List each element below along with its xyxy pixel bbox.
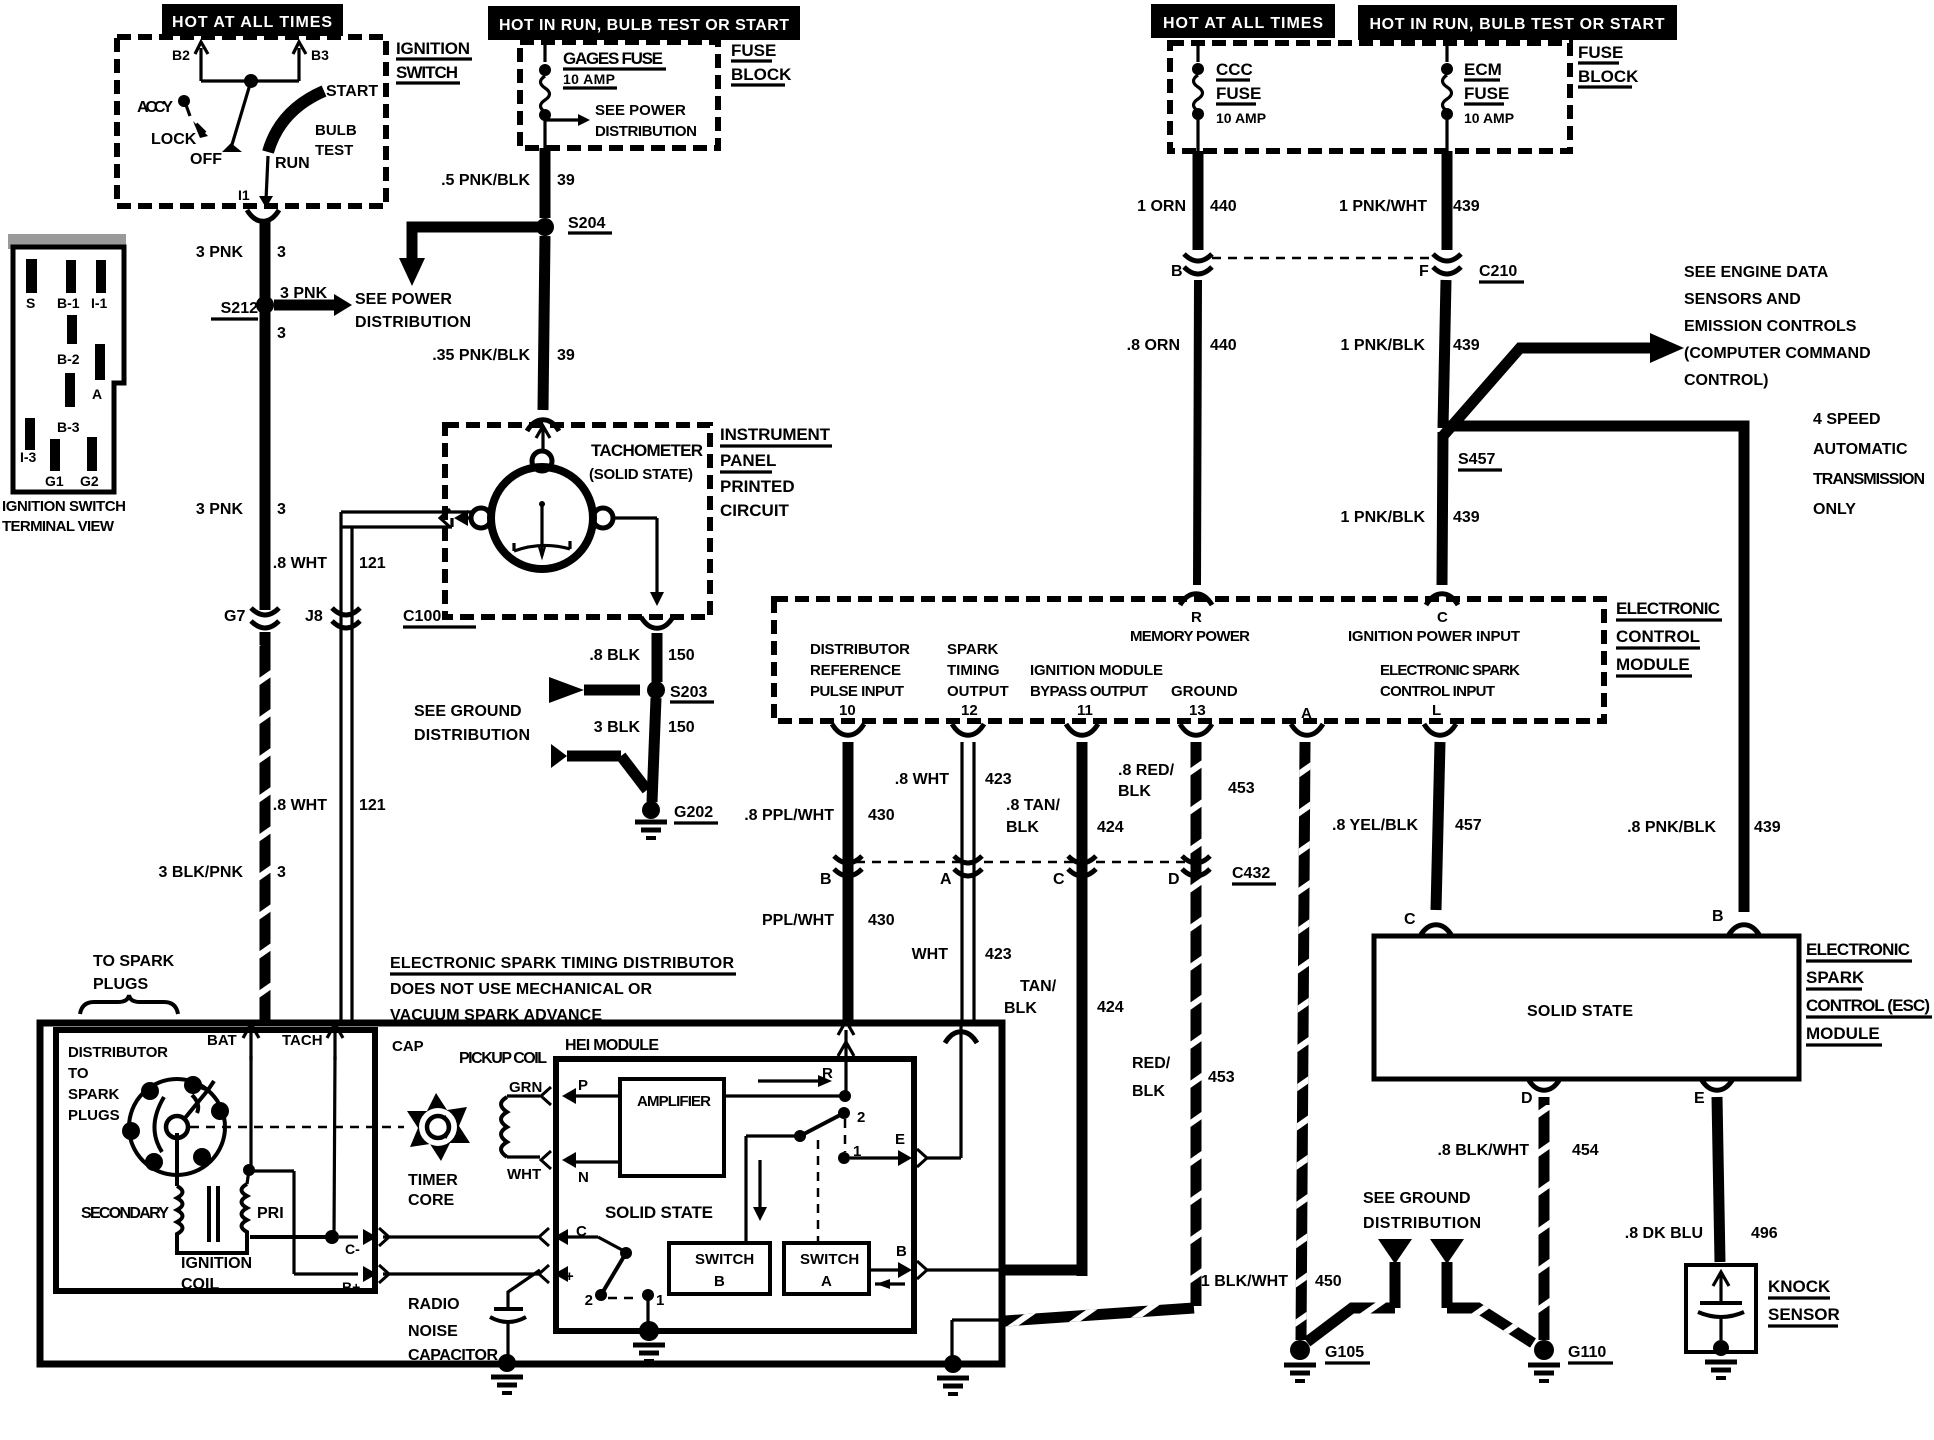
svg-text:BLK: BLK — [1004, 1000, 1037, 1017]
svg-text:DISTRIBUTOR: DISTRIBUTOR — [810, 641, 910, 658]
svg-text:C-: C- — [345, 1241, 360, 1257]
svg-text:BLOCK: BLOCK — [731, 65, 792, 84]
svg-text:3: 3 — [277, 325, 286, 342]
svg-text:A: A — [940, 871, 952, 888]
svg-text:.8 PPL/WHT: .8 PPL/WHT — [744, 807, 834, 824]
svg-text:.8 BLK/WHT: .8 BLK/WHT — [1437, 1142, 1529, 1159]
svg-text:VACUUM SPARK ADVANCE: VACUUM SPARK ADVANCE — [390, 1007, 602, 1024]
svg-text:B3: B3 — [311, 47, 329, 63]
svg-text:MEMORY POWER: MEMORY POWER — [1130, 628, 1250, 645]
svg-text:1 ORN: 1 ORN — [1137, 198, 1186, 215]
svg-text:HOT AT ALL TIMES: HOT AT ALL TIMES — [1163, 15, 1323, 32]
svg-text:WHT: WHT — [912, 946, 949, 963]
svg-text:TEST: TEST — [315, 142, 353, 159]
svg-text:.8 BLK: .8 BLK — [589, 647, 640, 664]
svg-text:COIL: COIL — [181, 1276, 219, 1293]
svg-text:PANEL: PANEL — [720, 451, 776, 470]
svg-text:TO SPARK: TO SPARK — [93, 953, 175, 970]
svg-text:DISTRIBUTION: DISTRIBUTION — [1363, 1215, 1481, 1232]
svg-text:SWITCH: SWITCH — [396, 63, 458, 82]
svg-text:424: 424 — [1097, 999, 1124, 1016]
svg-text:BYPASS OUTPUT: BYPASS OUTPUT — [1030, 683, 1148, 700]
svg-text:S212: S212 — [221, 300, 258, 317]
svg-text:DOES NOT USE MECHANICAL OR: DOES NOT USE MECHANICAL OR — [390, 981, 652, 998]
svg-text:C: C — [1404, 911, 1416, 928]
svg-text:FUSE: FUSE — [1216, 84, 1261, 103]
svg-text:3 PNK: 3 PNK — [280, 285, 328, 302]
svg-text:B-1: B-1 — [57, 295, 80, 311]
svg-text:G105: G105 — [1325, 1344, 1364, 1361]
svg-text:10 AMP: 10 AMP — [1216, 110, 1266, 126]
svg-text:BAT: BAT — [207, 1032, 237, 1049]
svg-text:PPL/WHT: PPL/WHT — [762, 912, 834, 929]
svg-text:ELECTRONIC SPARK: ELECTRONIC SPARK — [1380, 662, 1520, 679]
svg-text:B: B — [1712, 908, 1724, 925]
svg-text:I-3: I-3 — [20, 449, 37, 465]
svg-text:IGNITION: IGNITION — [396, 39, 470, 58]
svg-text:1 BLK/WHT: 1 BLK/WHT — [1201, 1273, 1288, 1290]
svg-text:ELECTRONIC SPARK TIMING DISTRI: ELECTRONIC SPARK TIMING DISTRIBUTOR — [390, 955, 734, 972]
svg-text:HOT IN RUN, BULB TEST OR START: HOT IN RUN, BULB TEST OR START — [499, 17, 789, 34]
svg-text:A: A — [1301, 705, 1312, 722]
svg-text:CONTROL): CONTROL) — [1684, 372, 1768, 389]
svg-text:A: A — [821, 1273, 832, 1290]
svg-text:TO: TO — [68, 1065, 89, 1082]
svg-text:439: 439 — [1754, 819, 1781, 836]
svg-text:430: 430 — [868, 912, 895, 929]
svg-text:C: C — [1053, 871, 1065, 888]
svg-text:I1: I1 — [238, 187, 250, 203]
svg-text:1 PNK/BLK: 1 PNK/BLK — [1341, 509, 1426, 526]
svg-text:HOT AT ALL TIMES: HOT AT ALL TIMES — [172, 14, 332, 31]
svg-text:1: 1 — [656, 1292, 664, 1309]
svg-text:TAN/: TAN/ — [1020, 978, 1057, 995]
svg-text:S457: S457 — [1458, 451, 1495, 468]
svg-text:1 PNK/BLK: 1 PNK/BLK — [1341, 337, 1426, 354]
svg-text:F: F — [1419, 263, 1429, 280]
svg-text:.8 WHT: .8 WHT — [273, 797, 327, 814]
svg-text:PLUGS: PLUGS — [68, 1107, 120, 1124]
svg-text:C: C — [1437, 609, 1448, 626]
svg-text:457: 457 — [1455, 817, 1482, 834]
svg-text:496: 496 — [1751, 1225, 1778, 1242]
svg-text:ELECTRONIC: ELECTRONIC — [1616, 599, 1720, 618]
svg-text:439: 439 — [1453, 509, 1480, 526]
svg-text:439: 439 — [1453, 198, 1480, 215]
svg-text:121: 121 — [359, 555, 386, 572]
svg-text:C210: C210 — [1479, 263, 1517, 280]
svg-text:440: 440 — [1210, 337, 1237, 354]
svg-text:DISTRIBUTION: DISTRIBUTION — [595, 123, 697, 140]
svg-text:B-2: B-2 — [57, 351, 80, 367]
svg-text:LOCK: LOCK — [151, 131, 197, 148]
svg-text:12: 12 — [961, 702, 978, 719]
svg-text:TIMER: TIMER — [408, 1172, 458, 1189]
svg-text:CONTROL: CONTROL — [1616, 627, 1700, 646]
svg-text:.5 PNK/BLK: .5 PNK/BLK — [441, 172, 530, 189]
svg-text:39: 39 — [557, 347, 575, 364]
svg-text:SECONDARY: SECONDARY — [81, 1205, 169, 1222]
svg-text:3 PNK: 3 PNK — [196, 244, 244, 261]
svg-text:SENSOR: SENSOR — [1768, 1305, 1840, 1324]
svg-text:CIRCUIT: CIRCUIT — [720, 501, 790, 520]
svg-text:CONTROL INPUT: CONTROL INPUT — [1380, 683, 1495, 700]
svg-text:DISTRIBUTION: DISTRIBUTION — [414, 727, 530, 744]
svg-text:SPARK: SPARK — [947, 641, 999, 658]
svg-text:SPARK: SPARK — [1806, 968, 1865, 987]
svg-text:L: L — [1432, 702, 1441, 719]
svg-text:11: 11 — [1077, 702, 1093, 719]
svg-text:REFERENCE: REFERENCE — [810, 662, 901, 679]
svg-text:DISTRIBUTOR: DISTRIBUTOR — [68, 1044, 168, 1061]
svg-text:S204: S204 — [568, 215, 605, 232]
svg-text:.8 TAN/: .8 TAN/ — [1006, 797, 1060, 814]
svg-text:2: 2 — [585, 1292, 593, 1309]
svg-text:3: 3 — [277, 244, 286, 261]
svg-text:HEI MODULE: HEI MODULE — [565, 1037, 659, 1054]
svg-text:OFF: OFF — [190, 151, 222, 168]
svg-text:TIMING: TIMING — [947, 662, 1000, 679]
svg-text:.8 DK BLU: .8 DK BLU — [1625, 1225, 1703, 1242]
svg-text:.8 YEL/BLK: .8 YEL/BLK — [1332, 817, 1418, 834]
svg-text:G2: G2 — [80, 473, 99, 489]
svg-text:.8 ORN: .8 ORN — [1127, 337, 1180, 354]
svg-text:MODULE: MODULE — [1806, 1024, 1880, 1043]
svg-text:RADIO: RADIO — [408, 1296, 460, 1313]
svg-text:.8 RED/: .8 RED/ — [1118, 762, 1175, 779]
svg-text:440: 440 — [1210, 198, 1237, 215]
svg-text:B+: B+ — [342, 1279, 360, 1295]
svg-text:430: 430 — [868, 807, 895, 824]
svg-text:PLUGS: PLUGS — [93, 976, 148, 993]
svg-text:3: 3 — [277, 864, 286, 881]
svg-text:453: 453 — [1228, 780, 1255, 797]
svg-text:ONLY: ONLY — [1813, 501, 1856, 518]
svg-text:G202: G202 — [674, 804, 713, 821]
svg-text:START: START — [326, 83, 378, 100]
svg-text:SEE GROUND: SEE GROUND — [1363, 1190, 1471, 1207]
svg-text:I-1: I-1 — [91, 295, 108, 311]
svg-text:FUSE: FUSE — [1464, 84, 1509, 103]
svg-text:ELECTRONIC: ELECTRONIC — [1806, 940, 1910, 959]
svg-text:C432: C432 — [1232, 865, 1270, 882]
svg-text:S203: S203 — [670, 684, 707, 701]
svg-text:(SOLID STATE): (SOLID STATE) — [589, 466, 693, 483]
svg-text:424: 424 — [1097, 819, 1124, 836]
svg-text:FUSE: FUSE — [731, 41, 776, 60]
svg-text:KNOCK: KNOCK — [1768, 1277, 1831, 1296]
svg-text:B2: B2 — [172, 47, 190, 63]
svg-text:B: B — [1171, 263, 1183, 280]
svg-text:J8: J8 — [305, 608, 323, 625]
svg-text:C100: C100 — [403, 608, 441, 625]
svg-text:CAPACITOR: CAPACITOR — [408, 1347, 498, 1364]
svg-text:1 PNK/WHT: 1 PNK/WHT — [1339, 198, 1427, 215]
svg-text:G7: G7 — [224, 608, 245, 625]
svg-text:DISTRIBUTION: DISTRIBUTION — [355, 314, 471, 331]
svg-text:10 AMP: 10 AMP — [1464, 110, 1514, 126]
svg-text:423: 423 — [985, 771, 1012, 788]
svg-text:SENSORS AND: SENSORS AND — [1684, 291, 1801, 308]
svg-text:3 BLK: 3 BLK — [594, 719, 641, 736]
svg-text:OUTPUT: OUTPUT — [947, 683, 1009, 700]
svg-text:BLK: BLK — [1006, 819, 1039, 836]
svg-text:3 PNK: 3 PNK — [196, 501, 244, 518]
svg-text:2: 2 — [857, 1109, 865, 1126]
svg-text:439: 439 — [1453, 337, 1480, 354]
svg-text:SWITCH: SWITCH — [695, 1251, 754, 1268]
svg-text:CORE: CORE — [408, 1192, 455, 1209]
svg-text:ACCY: ACCY — [137, 99, 173, 116]
svg-text:.8 WHT: .8 WHT — [895, 771, 949, 788]
svg-text:N: N — [578, 1169, 589, 1186]
svg-text:GRN: GRN — [509, 1079, 542, 1096]
svg-text:3: 3 — [277, 501, 286, 518]
svg-text:SEE POWER: SEE POWER — [595, 102, 686, 119]
svg-text:BULB: BULB — [315, 122, 357, 139]
svg-text:SOLID STATE: SOLID STATE — [1527, 1003, 1633, 1020]
svg-text:A: A — [92, 386, 102, 402]
svg-text:454: 454 — [1572, 1142, 1599, 1159]
svg-text:121: 121 — [359, 797, 386, 814]
svg-text:MODULE: MODULE — [1616, 655, 1690, 674]
svg-text:ECM: ECM — [1464, 60, 1502, 79]
svg-text:G1: G1 — [45, 473, 64, 489]
svg-text:GAGES FUSE: GAGES FUSE — [563, 49, 663, 68]
svg-text:SEE ENGINE DATA: SEE ENGINE DATA — [1684, 264, 1829, 281]
svg-text:EMISSION CONTROLS: EMISSION CONTROLS — [1684, 318, 1857, 335]
svg-text:SPARK: SPARK — [68, 1086, 120, 1103]
svg-text:D: D — [1521, 1090, 1533, 1107]
svg-text:FUSE: FUSE — [1578, 43, 1623, 62]
svg-text:PICKUP COIL: PICKUP COIL — [459, 1050, 547, 1067]
svg-text:SWITCH: SWITCH — [800, 1251, 859, 1268]
svg-text:AMPLIFIER: AMPLIFIER — [637, 1093, 711, 1110]
svg-text:E: E — [1694, 1090, 1705, 1107]
svg-text:S: S — [26, 295, 35, 311]
svg-text:R: R — [1191, 609, 1202, 626]
svg-text:B: B — [820, 871, 832, 888]
svg-text:WHT: WHT — [507, 1166, 541, 1183]
svg-text:CCC: CCC — [1216, 60, 1253, 79]
svg-text:IGNITION: IGNITION — [181, 1255, 252, 1272]
svg-text:450: 450 — [1315, 1273, 1342, 1290]
svg-text:39: 39 — [557, 172, 575, 189]
svg-text:NOISE: NOISE — [408, 1323, 458, 1340]
svg-text:IGNITION SWITCH: IGNITION SWITCH — [2, 498, 126, 515]
svg-text:453: 453 — [1208, 1069, 1235, 1086]
svg-text:BLOCK: BLOCK — [1578, 67, 1639, 86]
svg-text:BLK: BLK — [1132, 1083, 1165, 1100]
svg-text:IGNITION MODULE: IGNITION MODULE — [1030, 662, 1163, 679]
svg-text:SOLID STATE: SOLID STATE — [605, 1203, 713, 1222]
svg-text:CAP: CAP — [392, 1038, 424, 1055]
svg-text:.8 PNK/BLK: .8 PNK/BLK — [1627, 819, 1716, 836]
svg-text:(COMPUTER COMMAND: (COMPUTER COMMAND — [1684, 345, 1871, 362]
svg-text:10 AMP: 10 AMP — [563, 71, 615, 87]
svg-text:D: D — [1168, 871, 1180, 888]
svg-text:.8 WHT: .8 WHT — [273, 555, 327, 572]
svg-text:PULSE INPUT: PULSE INPUT — [810, 683, 904, 700]
svg-text:10: 10 — [839, 702, 856, 719]
svg-text:AUTOMATIC: AUTOMATIC — [1813, 441, 1908, 458]
svg-text:CONTROL (ESC): CONTROL (ESC) — [1806, 996, 1930, 1015]
svg-text:TERMINAL VIEW: TERMINAL VIEW — [2, 518, 115, 535]
svg-text:PRINTED: PRINTED — [720, 477, 795, 496]
svg-text:TACH: TACH — [282, 1032, 323, 1049]
svg-text:SEE GROUND: SEE GROUND — [414, 703, 522, 720]
svg-text:INSTRUMENT: INSTRUMENT — [720, 425, 831, 444]
svg-text:E: E — [895, 1131, 905, 1148]
svg-text:150: 150 — [668, 719, 695, 736]
svg-text:B-3: B-3 — [57, 419, 80, 435]
svg-text:RUN: RUN — [275, 155, 310, 172]
svg-text:3 BLK/PNK: 3 BLK/PNK — [159, 864, 244, 881]
svg-text:HOT IN RUN, BULB TEST OR START: HOT IN RUN, BULB TEST OR START — [1370, 16, 1665, 33]
svg-text:IGNITION POWER INPUT: IGNITION POWER INPUT — [1348, 628, 1520, 645]
svg-text:B: B — [896, 1243, 907, 1260]
svg-text:PRI: PRI — [257, 1205, 284, 1222]
svg-text:SEE POWER: SEE POWER — [355, 291, 452, 308]
svg-text:RED/: RED/ — [1132, 1055, 1171, 1072]
svg-text:13: 13 — [1189, 702, 1206, 719]
svg-text:P: P — [578, 1077, 588, 1094]
svg-text:423: 423 — [985, 946, 1012, 963]
svg-text:+: + — [565, 1268, 574, 1285]
svg-text:BLK: BLK — [1118, 783, 1151, 800]
svg-text:4 SPEED: 4 SPEED — [1813, 411, 1881, 428]
svg-text:.35 PNK/BLK: .35 PNK/BLK — [432, 347, 530, 364]
svg-text:TACHOMETER: TACHOMETER — [591, 441, 703, 460]
svg-text:TRANSMISSION: TRANSMISSION — [1813, 471, 1925, 488]
svg-text:G110: G110 — [1568, 1344, 1606, 1361]
svg-text:150: 150 — [668, 647, 695, 664]
svg-text:GROUND: GROUND — [1171, 683, 1238, 700]
svg-text:B: B — [714, 1273, 725, 1290]
